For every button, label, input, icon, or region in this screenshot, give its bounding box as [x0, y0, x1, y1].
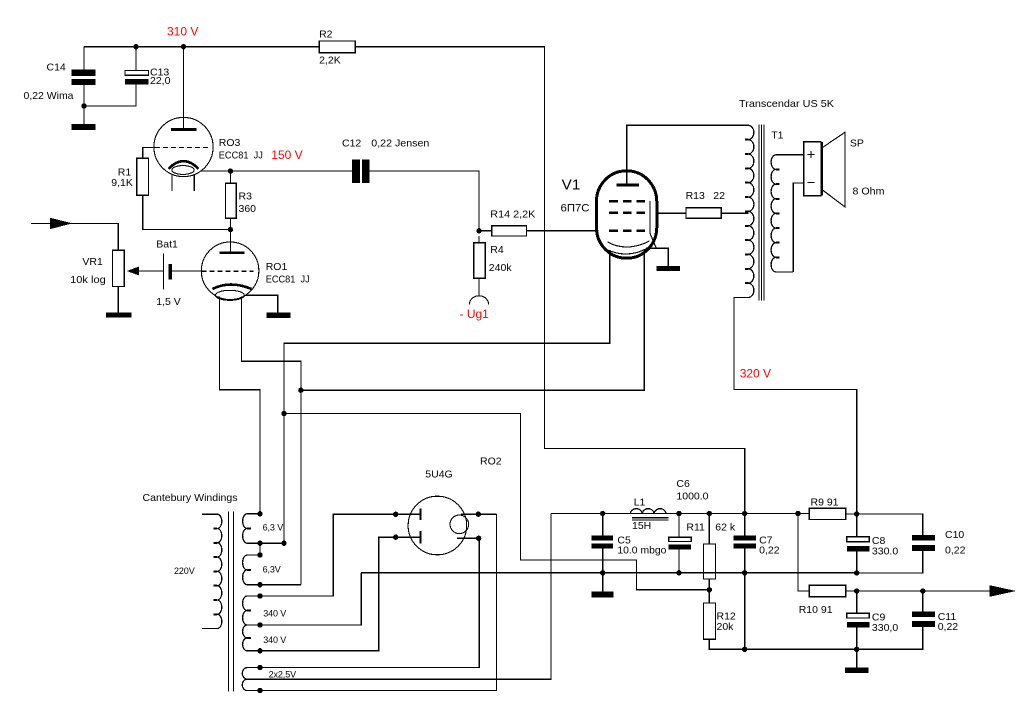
node junction C6 bottom — [676, 570, 681, 575]
node 5U4G anode1 pin — [393, 512, 398, 517]
svg-text:8 Ohm: 8 Ohm — [853, 185, 885, 197]
node 5U4G filament pin right bottom — [476, 536, 481, 541]
wire T1 secondary bottom to speaker minus — [776, 183, 804, 272]
ground under VR1 — [106, 287, 131, 318]
svg-text:V1: V1 — [562, 176, 581, 193]
svg-text:22: 22 — [713, 190, 725, 202]
node junction C5 top — [600, 511, 605, 516]
wire node to RO1 plate — [229, 230, 231, 253]
svg-text:15H: 15H — [632, 520, 651, 532]
wire rail right to C10 — [857, 514, 923, 535]
svg-text:- Ug1: - Ug1 — [460, 307, 490, 321]
svg-text:240k: 240k — [489, 262, 513, 274]
svg-text:220V: 220V — [174, 566, 195, 576]
ground under C9 — [845, 649, 869, 673]
svg-text:20k: 20k — [717, 621, 735, 633]
wire T1 secondary top to speaker plus — [776, 154, 804, 156]
wire C12 to R14/R4 node — [370, 171, 479, 231]
wire 0V lower rail — [361, 572, 857, 574]
tube RO3 triode — [154, 117, 263, 191]
svg-text:2x2,5V: 2x2,5V — [269, 669, 297, 679]
wire 2x2,5V bottom lead to 5U4G filament1 — [247, 514, 496, 690]
node 340V center tap — [257, 622, 262, 627]
wire RO1 left heater to 6,3V winding1 top — [220, 297, 260, 514]
resistor R9 91 — [809, 497, 846, 520]
wire T1 primary bottom 320V to R9 node — [734, 298, 857, 515]
node junction R11 top — [707, 511, 712, 516]
node junction 150V — [228, 168, 233, 173]
wire 5U4G filament wires — [457, 514, 497, 538]
wire 340V top to 5U4G anode1 — [247, 514, 419, 596]
node junction C9/C11 ground bus — [854, 647, 859, 652]
node junction bias line — [281, 411, 286, 416]
node junction R10/C9/output — [854, 588, 859, 593]
wire RO3 grid to R1 — [143, 148, 155, 159]
node junction R9 right 320V — [854, 511, 859, 516]
potentiometer VR1 — [70, 250, 163, 286]
secondary 340V windings with center tap — [243, 596, 287, 651]
node 340V bottom — [257, 648, 262, 653]
ground under C14 — [72, 106, 96, 130]
capacitor C11 — [857, 591, 959, 649]
node junction R11/R12 divider — [707, 587, 712, 592]
svg-text:Cantebury Windings: Cantebury Windings — [143, 492, 238, 504]
svg-text:10.0 mbgo: 10.0 mbgo — [617, 544, 666, 556]
svg-text:5U4G: 5U4G — [425, 468, 452, 480]
wire 150V node: RO3 cathode to C12 — [201, 170, 353, 172]
resistor R11 62k — [686, 514, 735, 590]
node junction C7 bottom — [742, 570, 747, 575]
svg-text:0,22: 0,22 — [938, 621, 959, 633]
svg-text:RO1: RO1 — [266, 261, 288, 273]
node junction C12/R14/R4 — [476, 228, 481, 233]
svg-text:320 V: 320 V — [740, 366, 771, 380]
node winding2 top — [257, 552, 262, 557]
node junction rail C13 — [133, 44, 138, 49]
secondary 2x2,5V winding — [242, 668, 296, 691]
svg-text:360: 360 — [239, 203, 257, 215]
resistor R3 — [226, 171, 257, 230]
svg-text:6,3V: 6,3V — [263, 565, 281, 575]
svg-text:330.0: 330.0 — [872, 546, 898, 558]
inductor L1 choke — [630, 497, 668, 533]
svg-text:R3: R3 — [239, 191, 253, 203]
resistor R13 screen to UL tap — [657, 190, 749, 218]
secondary 6,3V winding 2 — [243, 555, 301, 585]
svg-text:Bat1: Bat1 — [156, 239, 178, 251]
capacitor C5 — [592, 514, 667, 573]
capacitor C13 electrolytic — [84, 47, 171, 106]
svg-text:340 V: 340 V — [263, 608, 286, 618]
svg-text:22,0: 22,0 — [150, 75, 171, 87]
wire RO3 plate to rail — [183, 47, 185, 130]
secondary 6,3V winding 1 — [243, 514, 284, 543]
node junction C14/C13 ground — [81, 103, 86, 108]
wire top B+ rail 310V from C14 to R2 and down to filter node — [84, 47, 745, 514]
tube RO2 rectifier 5U4G — [408, 456, 502, 555]
svg-text:10k log: 10k log — [70, 274, 106, 286]
svg-text:340 V: 340 V — [263, 635, 286, 645]
node junction C7 drop bottom — [742, 647, 747, 652]
node junction heater/V1 right line — [298, 388, 303, 393]
capacitor C9 electrolytic — [847, 591, 899, 649]
resistor R14 — [479, 209, 599, 236]
node 2x2,5V top — [257, 665, 262, 670]
wire B+ filter rail — [551, 513, 857, 516]
svg-text:6П7С: 6П7С — [561, 202, 590, 214]
svg-text:C14: C14 — [47, 61, 66, 73]
capacitor C10 — [857, 529, 966, 573]
svg-text:2,2K: 2,2K — [319, 54, 341, 66]
resistor R10 91 — [799, 585, 857, 616]
wire output B line with arrow — [857, 585, 1016, 597]
capacitor C14 — [24, 47, 96, 106]
svg-text:9,1K: 9,1K — [111, 177, 133, 189]
svg-text:RO2: RO2 — [480, 456, 502, 468]
svg-text:SP: SP — [850, 138, 864, 150]
tube RO1 triode — [201, 242, 309, 300]
T1 secondary winding — [771, 155, 780, 272]
battery Bat1 — [156, 239, 201, 308]
wire 340V bottom to 5U4G anode2 — [247, 537, 419, 651]
svg-text:R10 91: R10 91 — [799, 604, 833, 616]
node winding2 bottom — [257, 582, 262, 587]
primary 220V winding — [174, 514, 222, 628]
node junction C5 bottom — [600, 570, 605, 575]
svg-text:R14 2,2K: R14 2,2K — [490, 209, 535, 221]
svg-text:1,5 V: 1,5 V — [156, 296, 181, 308]
node -Ug1 open terminal — [460, 296, 490, 321]
svg-text:0,22 Wima: 0,22 Wima — [24, 90, 74, 102]
wire 2x2,5V top lead to 5U4G filament2 — [247, 538, 479, 667]
node 5U4G filament pin right top — [476, 512, 481, 517]
svg-text:C12: C12 — [342, 137, 361, 149]
svg-text:0,22: 0,22 — [945, 545, 966, 557]
node winding1 bottom — [257, 541, 262, 546]
svg-text:0,22: 0,22 — [759, 544, 780, 556]
wire R1 bottom to cathode node of RO1 — [143, 195, 231, 229]
ground under C5 — [591, 573, 613, 598]
node junction C7 top — [742, 511, 747, 516]
wire V1 plate to T1 primary top — [627, 125, 749, 185]
ground under V1 cathode — [657, 266, 681, 271]
capacitor C8 electrolytic — [847, 514, 899, 573]
svg-text:T1: T1 — [771, 130, 783, 142]
svg-text:150 V: 150 V — [271, 148, 302, 162]
svg-text:RO3: RO3 — [219, 137, 241, 149]
wire V1 left heater line — [284, 250, 610, 543]
node 2x2,5V bottom — [257, 688, 262, 693]
wire V1 right heater/g3 line — [301, 249, 644, 390]
wire RO1 right heater to winding2 bottom riser — [241, 297, 301, 585]
capacitor C6 electrolytic — [669, 478, 709, 573]
svg-text:62 k: 62 k — [715, 521, 736, 533]
node junction C8 bottom — [854, 570, 859, 575]
node junction R9 left — [795, 511, 800, 516]
node 5U4G anode2 pin — [393, 535, 398, 540]
node junction C6 top — [676, 511, 681, 516]
svg-text:0,22 Jensen: 0,22 Jensen — [371, 137, 429, 149]
wire 340V center tap to 0V rail — [247, 573, 361, 625]
T1 primary winding — [745, 125, 754, 297]
node junction R3/R1/RO1 plate — [228, 227, 233, 232]
resistor R4 — [474, 236, 513, 296]
resistor R1 — [111, 158, 148, 195]
svg-text:R11: R11 — [686, 521, 705, 533]
svg-text:R2: R2 — [319, 28, 333, 40]
svg-text:R13: R13 — [686, 190, 705, 202]
svg-text:Transcendar US 5K: Transcendar US 5K — [739, 98, 834, 110]
svg-text:C6: C6 — [676, 478, 690, 490]
power transformer core — [228, 512, 233, 692]
wire 2x2,5V center tap to B+ rail — [247, 514, 551, 680]
svg-text:6,3 V: 6,3 V — [263, 523, 284, 533]
ground under RO1 cathode — [267, 312, 291, 318]
svg-text:VR1: VR1 — [82, 256, 103, 268]
wire heater bias line to R11/R12 divider — [284, 414, 709, 590]
resistor R2 — [319, 28, 355, 66]
svg-text:ECC81 JJ: ECC81 JJ — [219, 150, 263, 162]
capacitor C12 — [342, 137, 429, 183]
svg-text:330,0: 330,0 — [872, 622, 898, 634]
wire V1 cathode to ground — [646, 248, 668, 266]
node 340V top — [257, 593, 262, 598]
capacitor C7 — [733, 514, 779, 650]
node junction winding1/heater line — [281, 541, 286, 546]
wire R9 left drop to R10 — [798, 514, 809, 592]
wire RO1 cathode to ground — [246, 295, 278, 312]
svg-text:C10: C10 — [945, 529, 964, 541]
wire link winding1 bottom to winding2 top — [259, 543, 261, 555]
svg-text:R9 91: R9 91 — [811, 497, 839, 509]
node winding1 top — [257, 511, 262, 516]
tube V1 output pentode — [561, 171, 657, 258]
speaker SP — [804, 132, 885, 207]
resistor R12 20k — [704, 590, 857, 650]
node junction rail RO3 plate — [181, 44, 186, 49]
svg-text:310 V: 310 V — [167, 25, 198, 39]
wire input line with arrow — [31, 218, 118, 251]
svg-text:ECC81 JJ: ECC81 JJ — [266, 274, 310, 286]
svg-text:L1: L1 — [634, 497, 646, 509]
node junction C11 top — [920, 588, 925, 593]
svg-text:1000.0: 1000.0 — [676, 491, 708, 503]
svg-text:R4: R4 — [490, 244, 504, 256]
T1 core — [759, 125, 764, 301]
